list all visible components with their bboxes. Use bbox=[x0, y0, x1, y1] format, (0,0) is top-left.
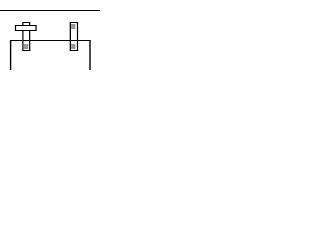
left hanger right line bbox=[29, 22, 30, 51]
left hanger left line bbox=[22, 22, 23, 51]
right sensor lower gray pad bbox=[71, 44, 75, 49]
resistor body bottom edge bbox=[15, 30, 37, 31]
box left edge bbox=[10, 40, 11, 70]
background bbox=[0, 0, 100, 70]
resistor body top edge bbox=[15, 25, 37, 26]
left hanger bottom edge bbox=[22, 50, 30, 51]
resistor body right edge bbox=[35, 25, 36, 31]
box right edge bbox=[89, 40, 90, 70]
right sensor bottom edge bbox=[70, 50, 79, 51]
box top edge bbox=[10, 40, 91, 41]
right sensor upper gray pad bbox=[71, 24, 75, 29]
left hanger lower gray pad bbox=[24, 44, 28, 49]
resistor body: wide rectangle over hanger bbox=[15, 25, 37, 31]
wire: top rail line bbox=[0, 10, 100, 11]
left hanger top edge bbox=[22, 22, 30, 23]
right sensor left line bbox=[70, 22, 71, 51]
resistor body left edge bbox=[15, 25, 16, 31]
right sensor top edge bbox=[70, 22, 79, 23]
right sensor right line bbox=[77, 22, 78, 51]
